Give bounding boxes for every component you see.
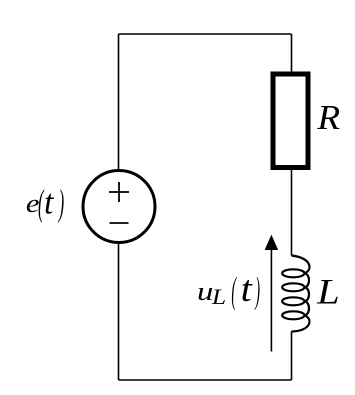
svg-text:u: u bbox=[197, 276, 213, 306]
svg-text:(: ( bbox=[231, 271, 237, 312]
svg-text:): ) bbox=[254, 271, 260, 312]
svg-text:L: L bbox=[211, 285, 226, 309]
svg-text:): ) bbox=[57, 184, 64, 224]
svg-text:R: R bbox=[316, 98, 340, 137]
svg-text:t: t bbox=[44, 183, 55, 221]
svg-text:L: L bbox=[316, 272, 340, 311]
svg-text:t: t bbox=[241, 270, 254, 310]
